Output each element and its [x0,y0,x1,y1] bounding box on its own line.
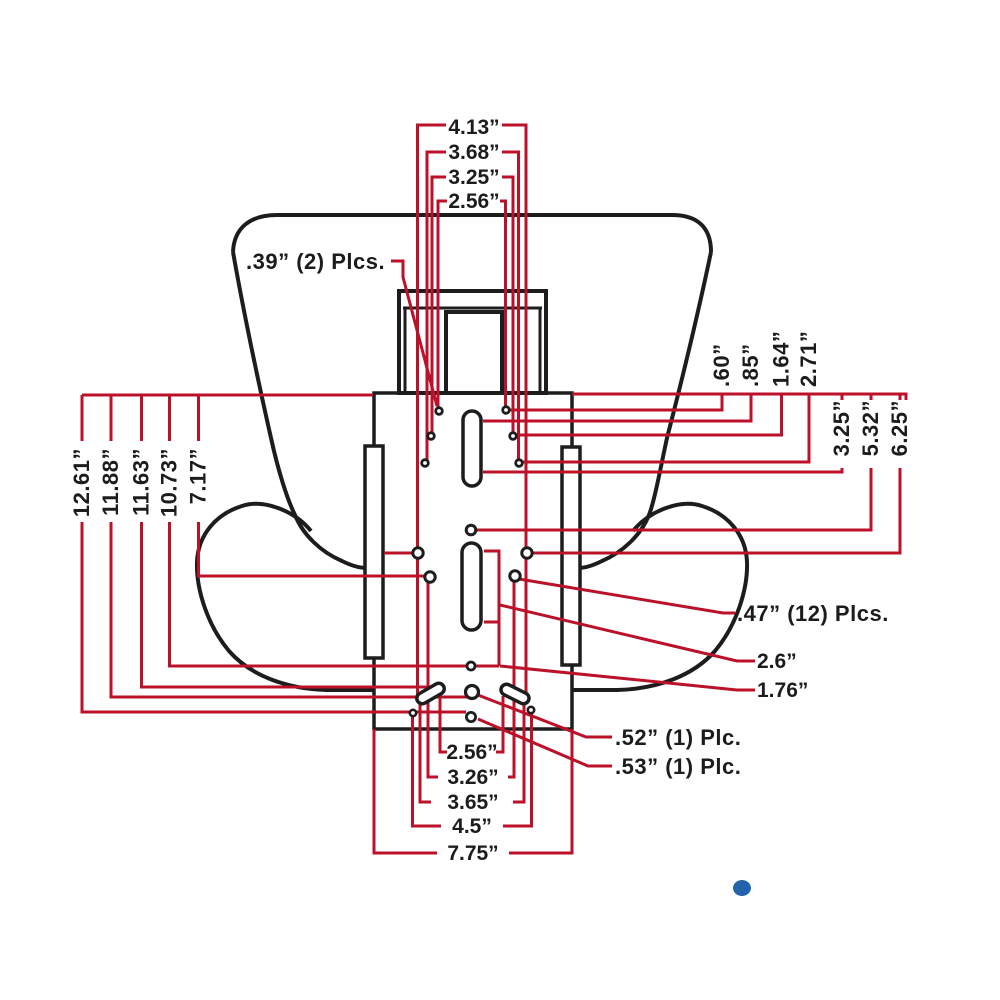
dim 4.13 top bracket [418,125,527,694]
svg-text:2.6”: 2.6” [757,650,797,673]
svg-text:.53” (1) Plc.: .53” (1) Plc. [615,754,741,779]
right ear slot [499,682,531,705]
svg-text:4.13”: 4.13” [448,116,499,139]
svg-text:6.25”: 6.25” [887,400,912,456]
right main dimension line [572,394,906,400]
svg-text:2.56”: 2.56” [446,741,497,764]
svg-text:7.75”: 7.75” [447,842,498,865]
right wing bolster loop [572,504,747,690]
hole r1 left [436,408,443,415]
dim 3.65 bottom bracket [420,700,524,802]
svg-text:2.56”: 2.56” [448,190,499,213]
seat right side line into right rail [578,252,711,568]
bottom slot bracket lines [484,551,499,666]
svg-text:.47” (12) Plcs.: .47” (12) Plcs. [737,601,889,626]
svg-text:.52” (1) Plc.: .52” (1) Plc. [615,725,741,750]
dim 3.25r lines [483,394,842,472]
dim 11.63 lines [142,395,439,687]
leader .53 [478,719,612,766]
short line hole to left rail [384,552,418,555]
leader .52 [478,695,612,737]
bracket inner right wall [539,308,542,393]
dim 12.61 lines [82,395,466,712]
left main dimension line [82,394,373,397]
hole wide left [413,548,423,558]
hole center small upper [467,662,475,670]
svg-text:3.65”: 3.65” [447,791,498,814]
svg-text:3.68”: 3.68” [448,141,499,164]
dim 3.68 top bracket [427,152,519,461]
svg-text:10.73”: 10.73” [157,448,182,517]
hole narrow left [425,572,435,582]
left wing bolster loop [197,504,374,690]
top slot [463,411,481,486]
svg-text:7.17”: 7.17” [186,448,211,504]
dim 10.73 lines [170,395,500,666]
mounting plate [374,393,572,729]
svg-text:3.26”: 3.26” [447,766,498,789]
svg-text:.39” (2) Plcs.: .39” (2) Plcs. [246,249,385,274]
bracket inner top line [403,307,542,310]
top mounting bracket outer [399,291,546,393]
seat back outline top edge with corners [233,215,711,252]
svg-text:11.63”: 11.63” [129,448,154,516]
hole r3 left [422,460,429,467]
hole r2 left [428,433,435,440]
right rail [562,447,580,665]
leader 1.76 [500,666,755,690]
svg-text:.85”: .85” [738,343,763,387]
dim .85 lines [483,394,751,421]
leader 2.6 [500,605,755,661]
hole r1 right [503,407,510,414]
blue dot [733,880,751,896]
dim 3.25 top bracket [432,177,513,434]
bracket center opening [446,312,502,393]
dim 2.56 top bracket [438,201,506,409]
hole wide right [522,548,532,558]
svg-text:12.61”: 12.61” [69,448,94,517]
dim 2.56 bottom bracket [440,688,503,752]
svg-text:3.25”: 3.25” [829,400,854,456]
svg-text:5.32”: 5.32” [858,400,883,456]
svg-text:1.64”: 1.64” [769,331,794,387]
svg-text:11.88”: 11.88” [98,448,123,516]
dim 3.26 bottom bracket [428,579,514,777]
hole outer left small [410,710,416,716]
hole r2 right [510,433,517,440]
svg-text:1.76”: 1.76” [757,679,808,702]
hole center bottom [466,712,475,721]
dim 2.71 lines [519,394,809,462]
dim 7.75 bottom bracket [374,729,572,853]
dim 11.88 lines [111,395,470,697]
svg-text:3.25”: 3.25” [448,166,499,189]
dim 1.64 lines [513,394,782,435]
left ear slot [415,681,446,706]
dim 4.5 bottom bracket [413,710,532,826]
svg-text:.60”: .60” [709,343,734,387]
hole r3 right [516,460,523,467]
hole center big [466,686,479,699]
hole center top [466,525,476,535]
left rail [365,446,383,658]
hole narrow right [510,571,520,581]
leader .47 [519,579,735,613]
bottom slot [462,543,481,630]
seat left side line into left rail [233,252,367,568]
dim .60 lines [506,394,722,410]
svg-text:4.5”: 4.5” [452,815,492,838]
hole outer right small [528,707,534,713]
dim 6.25 lines [527,394,900,553]
dim 5.32 lines [471,394,871,530]
leader .39 [391,261,437,406]
dim 7.17 lines [199,395,430,576]
svg-text:2.71”: 2.71” [796,331,821,387]
bracket inner left wall [404,308,407,393]
